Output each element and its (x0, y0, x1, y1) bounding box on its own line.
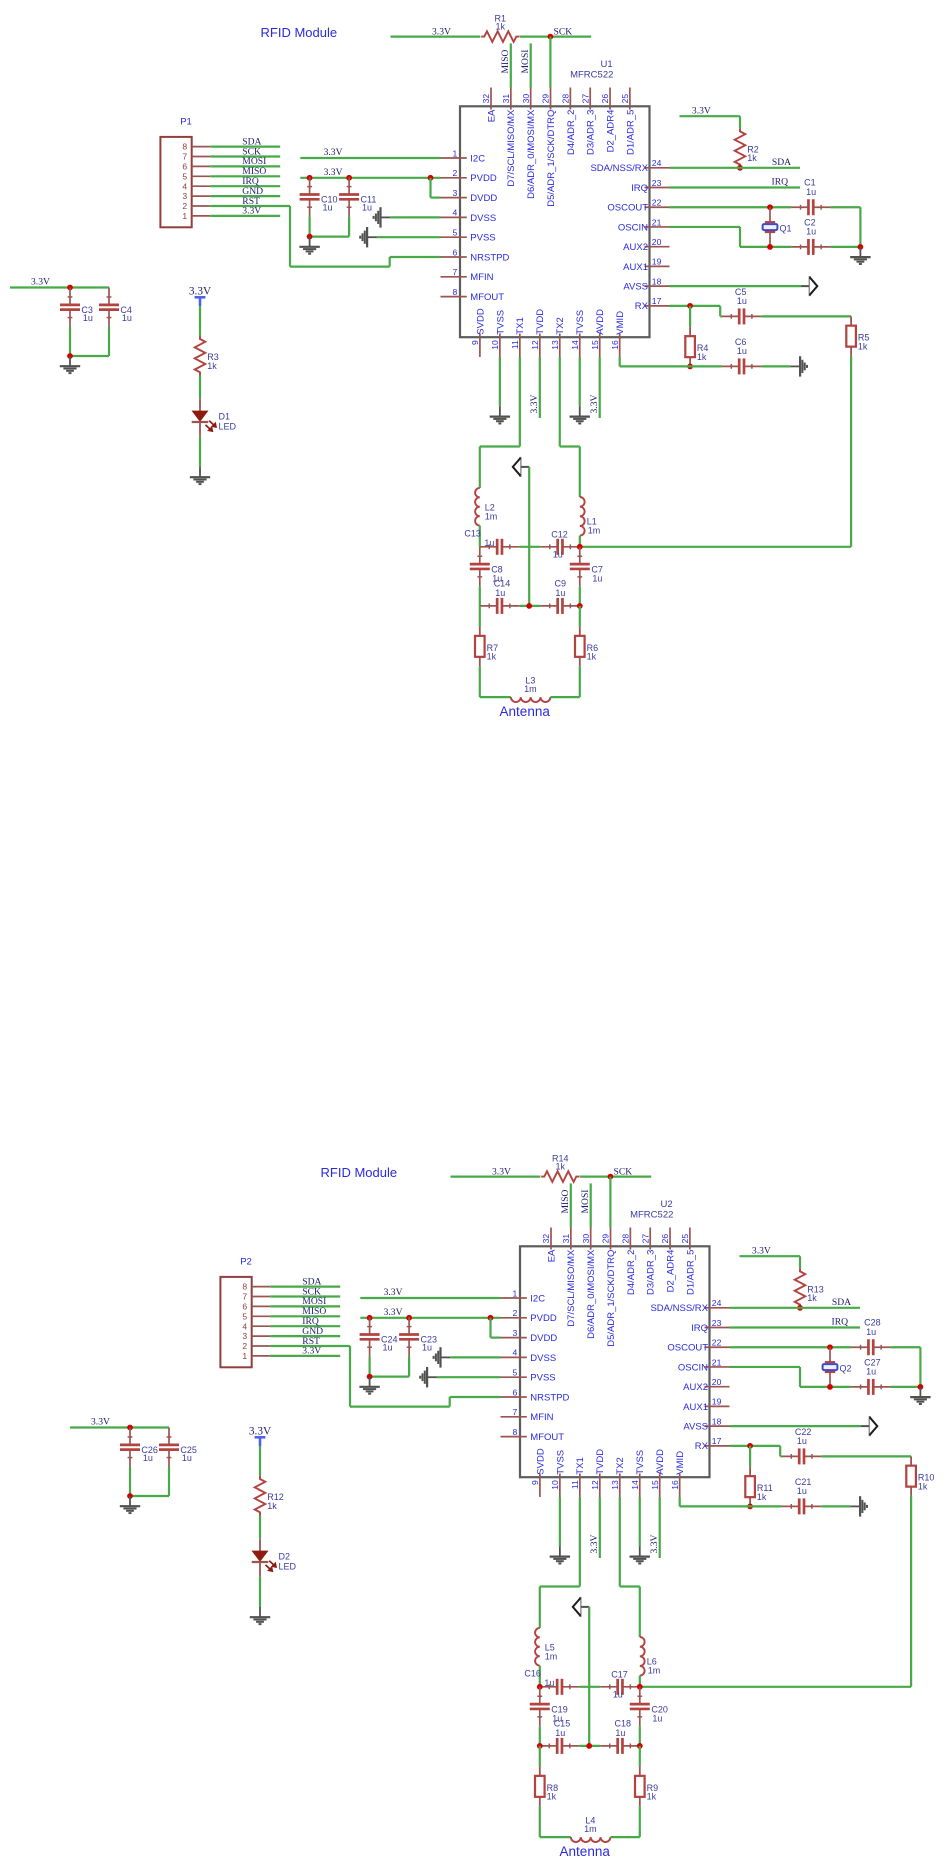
wire SDA (210, 146, 280, 148)
junction at C3 (67, 285, 73, 291)
wire row2 (519, 605, 540, 607)
junction SCK node (548, 34, 554, 40)
svg-text:3.3V: 3.3V (302, 1346, 321, 1357)
svg-text:5: 5 (242, 1311, 247, 1321)
capacitor C8 (479, 547, 481, 564)
svg-text:MFOUT: MFOUT (470, 292, 504, 303)
svg-text:22: 22 (652, 198, 662, 208)
svg-text:MISO: MISO (560, 1189, 571, 1213)
capacitor C13 (480, 546, 497, 548)
capacitor C18 (600, 1745, 617, 1747)
wire 3.3V to pin 1 I2C (360, 1297, 500, 1299)
wire pin 10 TVSS to ground (559, 1497, 561, 1546)
svg-text:D4/ADR_2: D4/ADR_2 (626, 1250, 637, 1295)
svg-text:14: 14 (630, 1480, 640, 1490)
pin 22 OSCOUT (705, 1346, 730, 1348)
resistor R11 (749, 1446, 751, 1467)
wire pin 11 TX1 to L5 (579, 1497, 581, 1587)
wire bottom loop right (550, 696, 579, 698)
junction at C26 (127, 1425, 133, 1431)
pin 19 AUX1 (705, 1405, 730, 1407)
wire C2 to ground corner (831, 246, 861, 248)
wire C22 to R10 (821, 1455, 911, 1457)
pin 28 D4/ADR_2 (629, 1228, 631, 1250)
wire 3.3V to pin 1 I2C (300, 157, 440, 159)
svg-text:3.3V: 3.3V (31, 277, 50, 288)
pin 28 D4/ADR_2 (569, 88, 571, 110)
pin 21 OSCIN (705, 1366, 730, 1368)
svg-text:3.3V: 3.3V (649, 1535, 660, 1554)
svg-text:P2: P2 (240, 1257, 252, 1268)
svg-text:26: 26 (600, 94, 610, 104)
svg-text:31: 31 (501, 94, 511, 104)
power 3.3V (199, 297, 202, 306)
no-connect arrow AVSS (861, 1425, 870, 1427)
junction VMID node (687, 364, 693, 370)
pin 24 SDA/NSS/RX (645, 167, 670, 169)
capacitor C21 (782, 1505, 799, 1507)
svg-text:D7/SCL/MISO/MX: D7/SCL/MISO/MX (506, 109, 517, 187)
pin 7 MFIN (501, 1416, 527, 1418)
wire to pin 3 DVDD (489, 1318, 491, 1338)
svg-text:6: 6 (453, 247, 458, 257)
pin 7 of P1 (192, 156, 211, 158)
svg-text:SCK: SCK (554, 26, 573, 37)
wire to R6 (579, 606, 581, 627)
resistor R3 (195, 336, 206, 376)
svg-text:IRQ: IRQ (832, 1317, 849, 1328)
pin 20 AUX2 (705, 1386, 730, 1388)
wire pin 23 IRQ (730, 1326, 861, 1328)
pin 24 SDA/NSS/RX (705, 1307, 730, 1309)
svg-text:VMID: VMID (615, 311, 626, 335)
wire pin 12 TVDD 3.3V stub (599, 1497, 601, 1558)
pin 8 of P1 (192, 146, 211, 148)
wire pin 11 TX1 to L2 (519, 357, 521, 447)
pin 4 of P1 (192, 185, 211, 187)
svg-text:1u: 1u (555, 1728, 565, 1738)
svg-text:22: 22 (712, 1338, 722, 1348)
svg-text:11: 11 (510, 340, 520, 349)
svg-text:1u: 1u (737, 296, 747, 306)
wire R12 to D2 (259, 1516, 261, 1539)
wire SCK to pin 29 (549, 37, 551, 88)
svg-text:TVSS: TVSS (555, 1450, 566, 1475)
resistor R9 (639, 1767, 641, 1776)
svg-text:AVDD: AVDD (595, 309, 606, 335)
svg-text:28: 28 (561, 94, 571, 104)
pin 25 D1/ADR_5 (689, 1228, 691, 1250)
pin 1 of P1 (192, 215, 211, 217)
pin 5 of P2 (252, 1315, 271, 1317)
svg-text:EA: EA (546, 1249, 557, 1262)
svg-text:1u: 1u (806, 227, 816, 237)
svg-text:15: 15 (590, 340, 600, 350)
svg-text:PVDD: PVDD (530, 1313, 557, 1324)
ground (790, 365, 800, 367)
svg-text:10: 10 (550, 1480, 560, 1490)
svg-text:Antenna: Antenna (560, 1844, 611, 1859)
wire C3 ground link (69, 327, 71, 356)
svg-text:1u: 1u (484, 538, 494, 548)
crystal Q1 (769, 207, 771, 222)
LED D2 (259, 1538, 261, 1551)
wire pin 18 AVSS (730, 1425, 861, 1427)
wire pin 22 OSCOUT (730, 1346, 852, 1348)
svg-text:OSCIN: OSCIN (678, 1362, 708, 1373)
svg-text:9: 9 (530, 1480, 540, 1485)
pin 32 EA (490, 88, 492, 110)
pin 5 PVSS (501, 1376, 527, 1378)
wire 3.3V to R2 (680, 115, 741, 117)
pin 30 D6/ADR_0/MOSI/MX (590, 1228, 592, 1250)
svg-text:TVDD: TVDD (595, 1449, 606, 1475)
pin 23 IRQ (705, 1327, 730, 1329)
wire 3.3V to R3 (199, 306, 201, 335)
capacitor C3 (69, 288, 71, 305)
svg-text:26: 26 (660, 1234, 670, 1244)
svg-text:MOSI: MOSI (520, 50, 531, 74)
svg-text:1u: 1u (122, 313, 132, 323)
pin 14 TVSS (639, 1474, 641, 1498)
wire pin 16 VMID to C21 (679, 1497, 681, 1506)
svg-text:27: 27 (580, 94, 590, 104)
svg-text:3.3V: 3.3V (91, 1417, 110, 1428)
svg-text:D2: D2 (279, 1552, 291, 1562)
wire R14 to SCK (580, 1175, 651, 1177)
svg-text:1k: 1k (547, 1792, 557, 1802)
svg-text:16: 16 (670, 1480, 680, 1490)
svg-text:3.3V: 3.3V (324, 147, 343, 158)
svg-text:1: 1 (513, 1288, 518, 1298)
pin 1 I2C (441, 157, 467, 159)
pin 22 OSCOUT (645, 206, 670, 208)
capacitor C24 (369, 1317, 371, 1334)
wire C7 to row2 (579, 586, 581, 606)
svg-text:27: 27 (640, 1234, 650, 1244)
svg-text:7: 7 (182, 152, 187, 162)
pin 31 D7/SCL/MISO/MX (510, 88, 512, 110)
wire RST to NRSTPD (349, 1346, 351, 1407)
junction VMID node (747, 1504, 753, 1510)
svg-text:OSCOUT: OSCOUT (667, 1343, 708, 1354)
svg-text:3.3V: 3.3V (324, 167, 343, 178)
svg-text:11: 11 (570, 1480, 580, 1489)
svg-text:2: 2 (242, 1341, 247, 1351)
wire L6 to row (639, 1676, 641, 1687)
capacitor C22 (782, 1455, 799, 1457)
svg-text:D2_ADR4: D2_ADR4 (605, 110, 616, 153)
capacitor C11 (348, 177, 350, 194)
svg-text:SDA: SDA (832, 1297, 851, 1308)
pin 7 of P2 (252, 1296, 271, 1298)
svg-text:C16: C16 (524, 1668, 541, 1678)
svg-text:3.3V: 3.3V (249, 1426, 272, 1438)
svg-text:IRQ: IRQ (691, 1323, 708, 1334)
capacitor C9 (540, 605, 557, 607)
svg-text:1m: 1m (584, 1824, 597, 1834)
svg-text:1k: 1k (487, 652, 497, 662)
pin 20 AUX2 (645, 246, 670, 248)
svg-text:4: 4 (182, 181, 187, 191)
svg-text:6: 6 (182, 162, 187, 172)
svg-text:P1: P1 (180, 117, 192, 128)
inductor L3 (511, 697, 551, 702)
svg-text:23: 23 (652, 178, 662, 188)
pin 4 DVSS (501, 1356, 527, 1358)
ground (369, 1377, 371, 1387)
svg-text:8: 8 (453, 287, 458, 297)
resistor R13 (795, 1268, 806, 1308)
capacitor C27 (851, 1386, 868, 1388)
svg-text:1k: 1k (556, 1162, 566, 1172)
junction DVDD jog (428, 175, 434, 181)
svg-text:3: 3 (242, 1331, 247, 1341)
svg-text:16: 16 (610, 340, 620, 350)
svg-text:32: 32 (541, 1234, 551, 1244)
wire SCK (210, 155, 280, 157)
svg-text:7: 7 (453, 267, 458, 277)
capacitor C6 (722, 365, 739, 367)
svg-text:20: 20 (712, 1377, 722, 1387)
wire R3 to D1 (199, 376, 201, 399)
wire pin 14 TVSS to ground (639, 1497, 641, 1546)
svg-text:1u: 1u (182, 1453, 192, 1463)
wire GND (270, 1335, 340, 1337)
pin 4 DVSS (441, 216, 467, 218)
svg-text:TX2: TX2 (615, 1457, 626, 1474)
svg-text:1k: 1k (697, 352, 707, 362)
svg-text:D6/ADR_0/MOSI/MX: D6/ADR_0/MOSI/MX (526, 109, 537, 199)
pin 2 PVDD (441, 177, 467, 179)
wire 3.3V to R1 (391, 35, 481, 37)
pin 15 AVDD (599, 334, 601, 358)
svg-text:4: 4 (453, 208, 458, 218)
svg-text:4: 4 (513, 1348, 518, 1358)
svg-text:1k: 1k (647, 1792, 657, 1802)
resistor R6 (579, 627, 581, 636)
wire SDA (270, 1285, 340, 1287)
svg-text:2: 2 (513, 1308, 518, 1318)
svg-text:DVSS: DVSS (530, 1353, 556, 1364)
ground DVSS (450, 1356, 500, 1358)
capacitor C7 (579, 547, 581, 564)
pin 11 TX1 (519, 334, 521, 358)
power 3.3V (259, 1437, 262, 1446)
junction crystal bottom (827, 1384, 833, 1390)
svg-text:Antenna: Antenna (500, 704, 551, 719)
svg-text:C12: C12 (551, 530, 568, 540)
svg-text:3.3V: 3.3V (384, 1287, 403, 1298)
svg-text:1k: 1k (207, 361, 217, 371)
svg-text:MFIN: MFIN (470, 272, 493, 283)
wire C1 to corner (831, 206, 861, 208)
ground (919, 1387, 921, 1397)
svg-text:1u: 1u (83, 313, 93, 323)
svg-text:SDA: SDA (772, 157, 791, 168)
wire pin 24 SDA (730, 1307, 861, 1309)
resistor R10 (910, 1456, 912, 1465)
junction row1 right (637, 1684, 643, 1690)
svg-text:Q2: Q2 (840, 1363, 852, 1373)
svg-text:3: 3 (453, 188, 458, 198)
pin 25 D1/ADR_5 (629, 88, 631, 110)
wire MOSI to pin 30 (590, 1183, 592, 1227)
pin 29 D5/ADR_1/SCK/DTRQ (550, 88, 552, 110)
svg-text:17: 17 (712, 1436, 722, 1446)
svg-text:VMID: VMID (675, 1451, 686, 1475)
svg-text:1k: 1k (757, 1492, 767, 1502)
pin 27 D3/ADR_3 (589, 88, 591, 110)
svg-text:17: 17 (652, 296, 662, 306)
junction SCK node (608, 1174, 614, 1180)
svg-text:AUX1: AUX1 (683, 1402, 708, 1413)
wire 3.3V rail at C26 (70, 1426, 169, 1428)
svg-text:24: 24 (652, 158, 662, 168)
svg-text:OSCIN: OSCIN (618, 222, 648, 233)
pin 6 NRSTPD (441, 256, 467, 258)
pin 5 PVSS (441, 236, 467, 238)
wire MOSI to pin 30 (530, 43, 532, 87)
svg-text:1u: 1u (362, 203, 372, 213)
svg-text:NRSTPD: NRSTPD (470, 252, 509, 263)
LED D1 (199, 398, 201, 411)
pin 31 D7/SCL/MISO/MX (570, 1228, 572, 1250)
svg-text:24: 24 (712, 1298, 722, 1308)
inductor L4 (571, 1837, 611, 1842)
wire pin 15 AVDD 3.3V stub (659, 1497, 661, 1558)
pin 15 AVDD (659, 1474, 661, 1498)
capacitor C4 (108, 288, 110, 305)
svg-text:D5/ADR_1/SCK/DTRQ: D5/ADR_1/SCK/DTRQ (606, 1250, 617, 1347)
svg-text:D4/ADR_2: D4/ADR_2 (566, 110, 577, 155)
pin 23 IRQ (645, 187, 670, 189)
wire R5 to antenna node (850, 356, 852, 547)
svg-text:3: 3 (513, 1328, 518, 1338)
svg-text:1k: 1k (587, 652, 597, 662)
capacitor C28 (851, 1346, 868, 1348)
pin 16 VMID (619, 334, 621, 358)
svg-text:1u: 1u (797, 1436, 807, 1446)
svg-text:PVDD: PVDD (470, 173, 497, 184)
wire row1 (579, 1686, 600, 1688)
pin 12 TVDD (539, 334, 541, 358)
wire 3.3V (210, 215, 280, 217)
svg-text:1u: 1u (555, 588, 565, 598)
svg-text:1: 1 (182, 211, 187, 221)
pin 10 TVSS (559, 1474, 561, 1498)
svg-text:AVSS: AVSS (683, 1422, 708, 1433)
capacitor C20 (639, 1687, 641, 1704)
pin 10 TVSS (499, 334, 501, 358)
svg-text:25: 25 (680, 1234, 690, 1244)
IC U2 MFRC522 body (520, 1246, 710, 1477)
no-connect arrow mid antenna (520, 466, 529, 468)
wire 3.3V to pin 2 PVDD (300, 177, 440, 179)
svg-text:D1/ADR_5: D1/ADR_5 (625, 110, 636, 155)
svg-text:MFIN: MFIN (530, 1412, 553, 1423)
junction SDA node (737, 165, 743, 171)
wire pin 16 VMID to C6 (619, 357, 621, 366)
pin 14 TVSS (579, 334, 581, 358)
svg-text:AUX2: AUX2 (623, 242, 648, 253)
svg-text:TVSS: TVSS (635, 1450, 646, 1475)
capacitor C14 (480, 605, 497, 607)
svg-text:DVDD: DVDD (530, 1333, 557, 1344)
pin 13 TX2 (619, 1474, 621, 1498)
svg-text:TVSS: TVSS (495, 310, 506, 335)
svg-text:1m: 1m (545, 1651, 558, 1661)
svg-text:AUX1: AUX1 (623, 262, 648, 273)
resistor R1 (481, 31, 519, 42)
svg-text:8: 8 (242, 1282, 247, 1292)
junction ground node (127, 1493, 133, 1499)
inductor L6 (640, 1637, 645, 1676)
wire C6 to ground (761, 365, 790, 367)
ground (639, 1546, 641, 1556)
svg-text:6: 6 (513, 1387, 518, 1397)
resistor R5 (850, 316, 852, 325)
pin 1 I2C (501, 1297, 527, 1299)
connector P1 (160, 137, 191, 227)
svg-text:RX: RX (695, 1441, 709, 1452)
capacitor C5 (722, 315, 739, 317)
svg-text:19: 19 (652, 257, 662, 267)
pin 2 of P1 (192, 205, 211, 207)
svg-text:SVDD: SVDD (475, 308, 486, 335)
svg-text:MFRC522: MFRC522 (570, 69, 613, 80)
capacitor C26 (129, 1428, 131, 1445)
svg-text:1k: 1k (496, 22, 506, 32)
ground (859, 247, 861, 257)
svg-text:21: 21 (652, 217, 662, 227)
ground PVSS (377, 236, 441, 238)
capacitor C16 (540, 1686, 557, 1688)
capacitor C10 (309, 177, 311, 194)
svg-text:5: 5 (513, 1368, 518, 1378)
pin 6 of P2 (252, 1305, 271, 1307)
svg-text:8: 8 (182, 142, 187, 152)
svg-text:1u: 1u (495, 588, 505, 598)
svg-text:PVSS: PVSS (530, 1373, 555, 1384)
pin 1 of P2 (252, 1355, 271, 1357)
svg-text:IRQ: IRQ (631, 183, 648, 194)
pin 26 D2_ADR4 (609, 88, 611, 110)
svg-text:18: 18 (712, 1416, 722, 1426)
svg-text:D1: D1 (219, 412, 231, 422)
pin 17 RX (645, 305, 670, 307)
junction row1 right (577, 544, 583, 550)
junction SDA node (797, 1305, 803, 1311)
wire pin 15 AVDD 3.3V stub (599, 357, 601, 418)
pin 6 of P1 (192, 165, 211, 167)
pin 2 of P2 (252, 1345, 271, 1347)
svg-text:PVSS: PVSS (470, 233, 495, 244)
wire C27 to ground corner (891, 1386, 921, 1388)
wire C21 to ground (821, 1505, 850, 1507)
svg-text:1k: 1k (918, 1481, 928, 1491)
wire SCK (270, 1295, 340, 1297)
junction ground node (918, 1384, 924, 1390)
svg-text:3.3V: 3.3V (492, 1166, 511, 1177)
svg-text:7: 7 (242, 1292, 247, 1302)
svg-text:28: 28 (621, 1234, 631, 1244)
svg-text:12: 12 (590, 1480, 600, 1490)
svg-text:1m: 1m (485, 511, 498, 521)
wire L1 to row (579, 536, 581, 547)
capacitor C19 (539, 1687, 541, 1704)
svg-text:19: 19 (712, 1397, 722, 1407)
